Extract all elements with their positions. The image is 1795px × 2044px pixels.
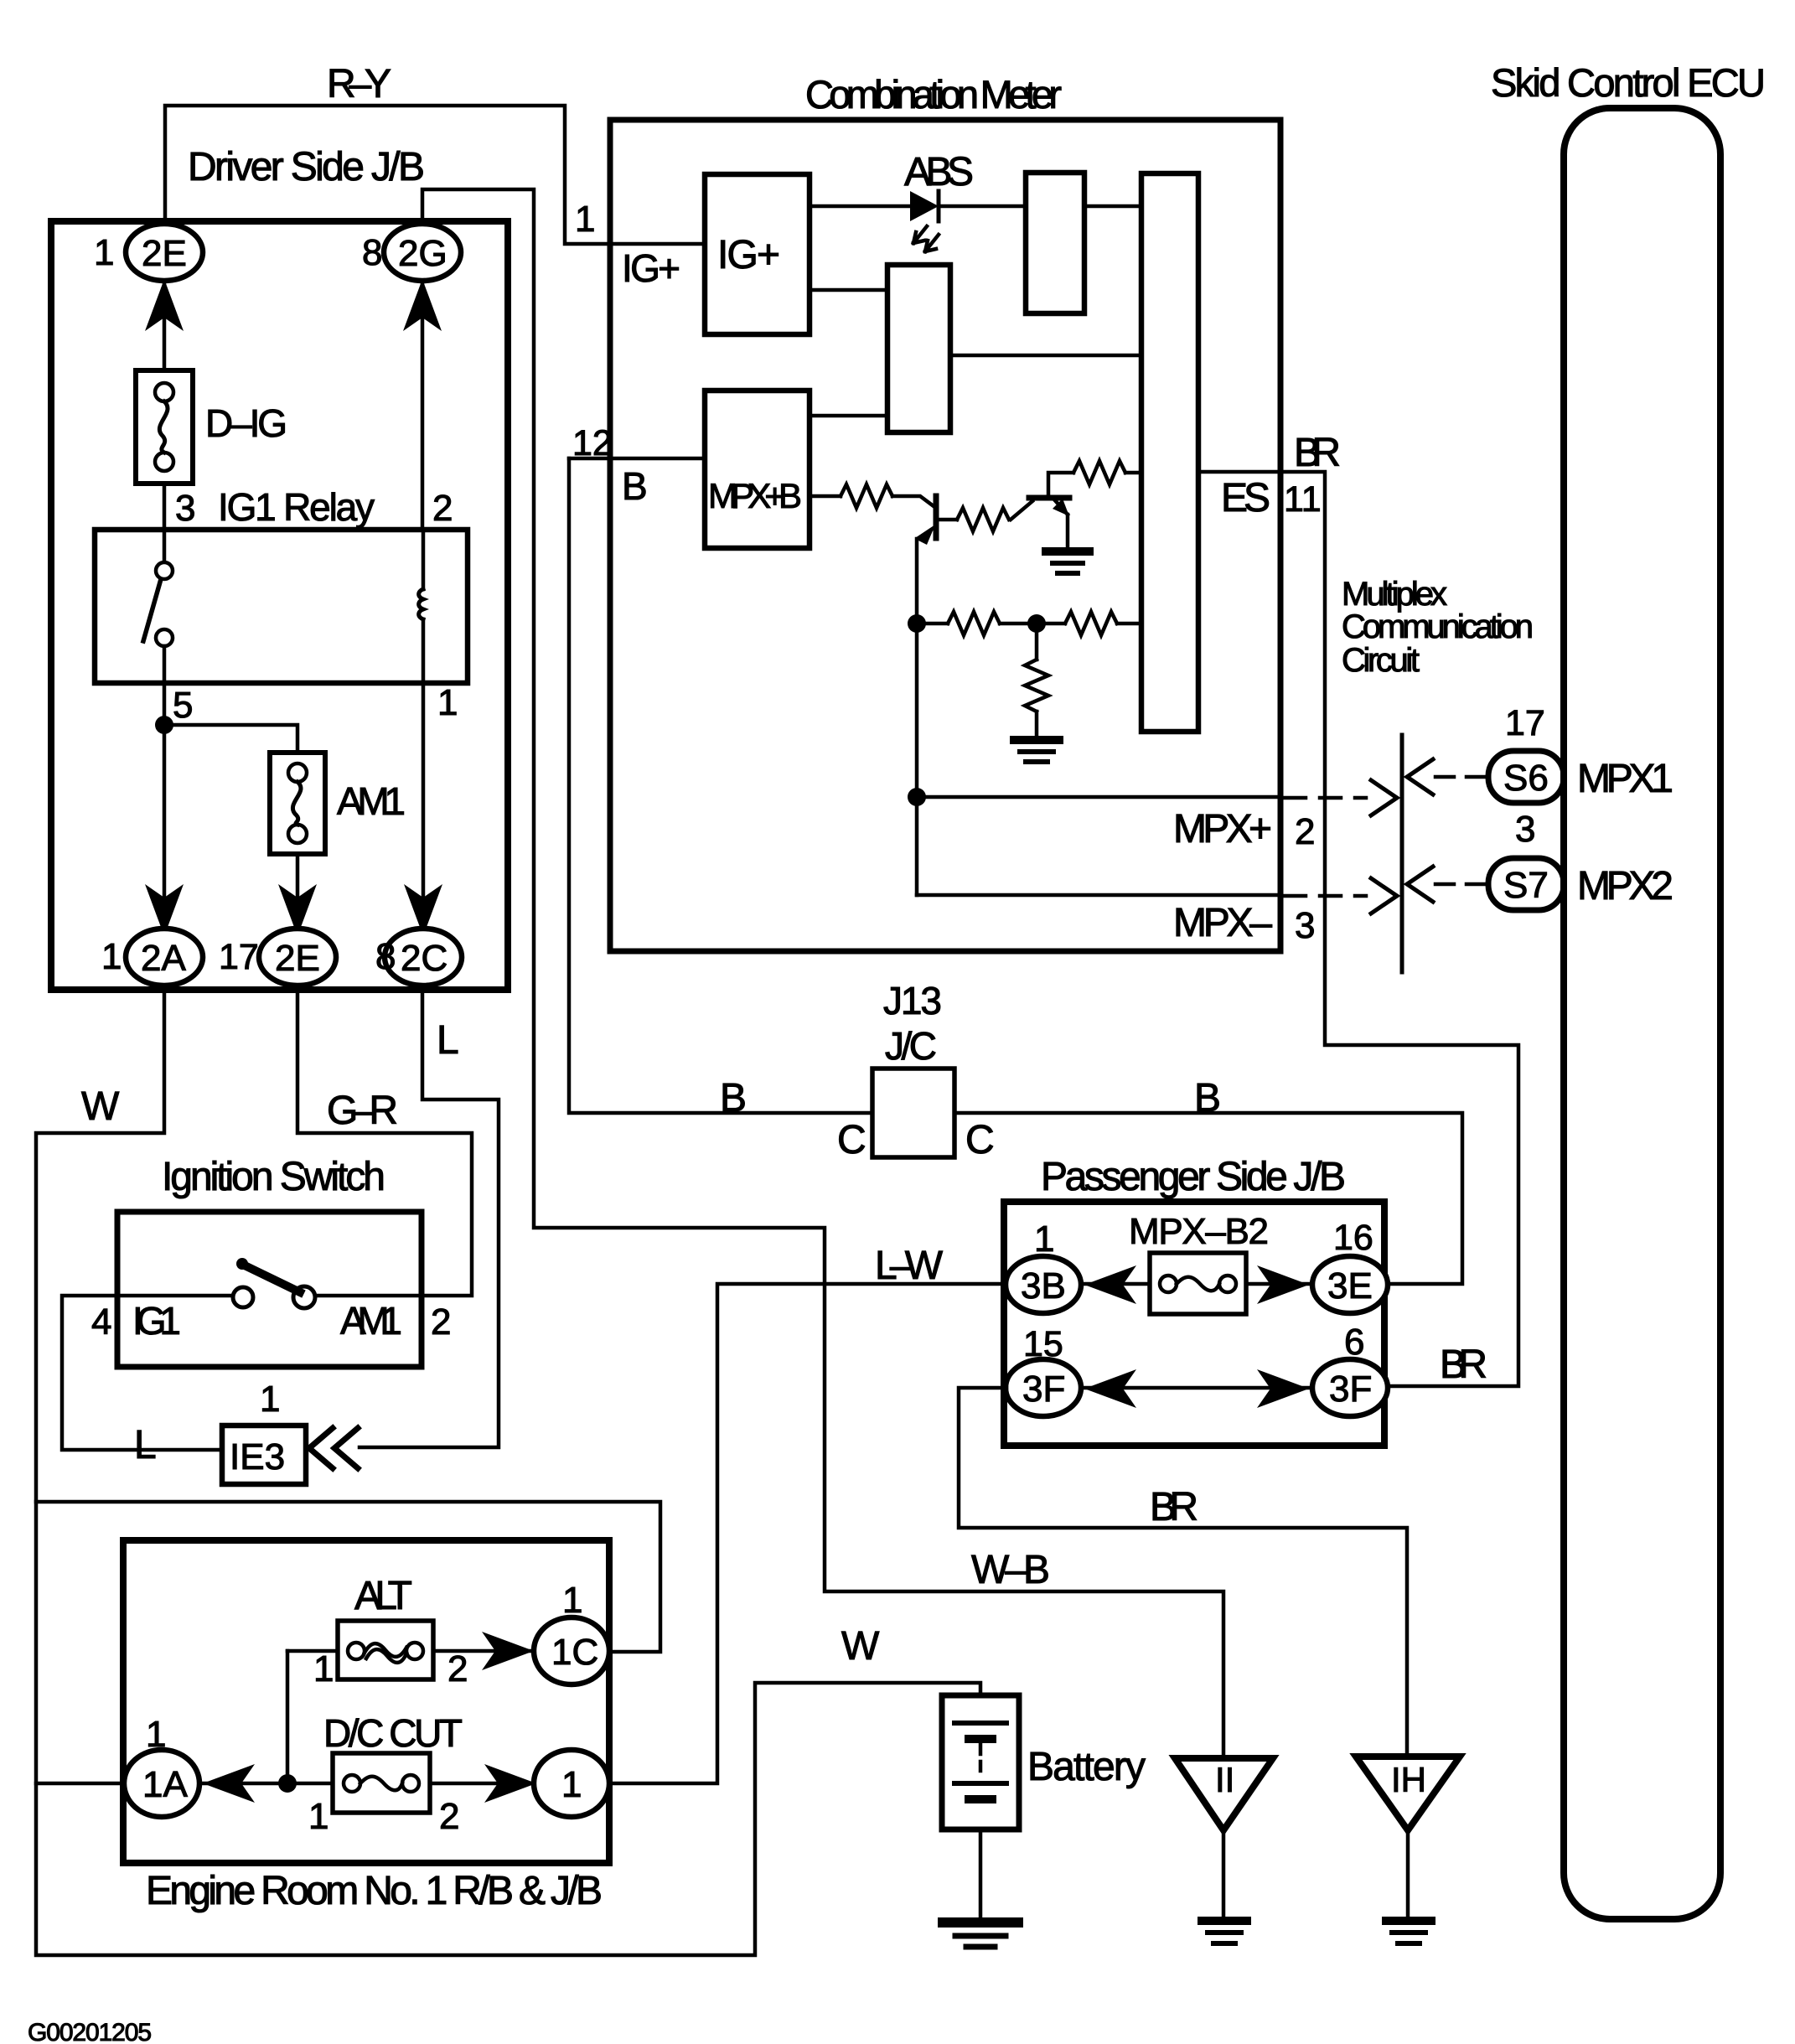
svg-text:ALT: ALT [354, 1574, 412, 1618]
svg-text:3: 3 [1295, 905, 1315, 946]
svg-text:3F: 3F [1022, 1369, 1065, 1410]
svg-text:W–B: W–B [971, 1548, 1050, 1592]
svg-text:G–R: G–R [327, 1089, 398, 1133]
wire IG+ to ABS diode [810, 204, 910, 209]
connector arrow right into 1 [484, 1764, 536, 1803]
meter block IG+ [705, 174, 810, 334]
wire IG+ to block3 [810, 288, 887, 292]
svg-text:L: L [134, 1423, 157, 1467]
wire branch to 1C via engine room [36, 1502, 660, 1652]
wire dot A to R4 [917, 622, 948, 626]
svg-text:BR: BR [1150, 1485, 1198, 1529]
meter block 3 [887, 265, 950, 432]
svg-text:3E: 3E [1327, 1265, 1373, 1307]
wire G-R from 2E bottom to AM1 terminal [297, 986, 472, 1296]
svg-text:2: 2 [431, 1301, 451, 1343]
svg-text:Battery: Battery [1027, 1745, 1146, 1789]
resistor R5 [1065, 612, 1117, 635]
connector oval 2A [126, 929, 203, 986]
svg-text:3B: 3B [1021, 1265, 1066, 1307]
svg-text:2: 2 [1295, 811, 1315, 852]
svg-text:1: 1 [561, 1764, 582, 1805]
svg-text:2C: 2C [401, 938, 447, 979]
svg-text:MPX2: MPX2 [1577, 864, 1673, 908]
svg-text:16: 16 [1333, 1218, 1373, 1258]
LED diode ABS [910, 191, 939, 221]
meter block MPX+B [705, 391, 810, 548]
fuse ALT [338, 1621, 433, 1679]
switch lever [243, 1265, 300, 1292]
svg-text:2E: 2E [275, 938, 320, 979]
transistor Q2 [1029, 495, 1069, 501]
svg-text:1: 1 [94, 232, 114, 273]
connector oval 2E top [126, 224, 203, 281]
svg-text:D–IG: D–IG [205, 401, 287, 445]
svg-text:1: 1 [437, 682, 458, 723]
dashed S6 arrow to bus [1435, 775, 1485, 779]
svg-text:1C: 1C [551, 1632, 598, 1673]
svg-text:ES: ES [1221, 476, 1270, 520]
multiplex bus line [1400, 735, 1404, 972]
wire R2 to Q2 base [1011, 501, 1032, 520]
connector oval 3F right [1312, 1359, 1388, 1416]
svg-text:IG+: IG+ [622, 246, 680, 290]
wire D-IG fuse to IG1 relay pin 3 [163, 484, 167, 530]
svg-text:IG+: IG+ [717, 233, 780, 277]
svg-text:1: 1 [101, 936, 122, 977]
fuse D-IG [136, 370, 193, 484]
svg-text:1: 1 [313, 1648, 334, 1690]
svg-text:1: 1 [562, 1580, 582, 1621]
wire II to ground [1222, 1830, 1226, 1919]
svg-text:Communication: Communication [1342, 608, 1534, 645]
box Combination Meter [610, 120, 1280, 951]
svg-text:Ignition Switch: Ignition Switch [162, 1155, 385, 1199]
wire dot A down to MPX lines [915, 624, 919, 895]
connector oval 3B [1006, 1256, 1081, 1313]
connector arrow right into 3E [1257, 1265, 1309, 1304]
svg-text:W: W [841, 1624, 880, 1669]
wire B pin 12 into MPX+B [569, 457, 705, 461]
svg-text:2E: 2E [142, 233, 187, 274]
svg-text:MPX–: MPX– [1173, 901, 1272, 945]
wire R-Y from 2E top to meter pin 1 [165, 106, 705, 244]
svg-text:3: 3 [1515, 809, 1535, 850]
resistor R2 [957, 508, 1009, 531]
junction dot B [1027, 614, 1046, 633]
wire AM1 fuse to 2E bottom [296, 854, 300, 932]
svg-text:BR: BR [1440, 1343, 1487, 1387]
svg-text:Engine Room No. 1 R/B & J/B: Engine Room No. 1 R/B & J/B [146, 1869, 603, 1913]
svg-text:L–W: L–W [875, 1244, 944, 1288]
connector arrow left into 3F left [1084, 1369, 1136, 1408]
dashed S7 arrow to bus [1435, 882, 1485, 887]
connector arrow down into 2A [145, 884, 184, 936]
svg-text:Combination Meter: Combination Meter [805, 72, 1062, 116]
svg-text:C: C [965, 1118, 995, 1162]
svg-text:2: 2 [447, 1648, 468, 1690]
dashed MPX- arrow to bus [1285, 894, 1366, 898]
wire ALT fuse to 1C [433, 1649, 534, 1653]
connector S6 [1488, 751, 1564, 803]
connector arrow right into 1C [482, 1632, 534, 1670]
wire 2E to D-IG fuse [163, 281, 167, 370]
wire W from 2A to battery with branches [36, 986, 980, 1955]
ground II [1202, 1917, 1247, 1925]
wire 3B to fuse [1081, 1282, 1150, 1286]
svg-text:1: 1 [1034, 1219, 1054, 1260]
wire diode to block2 [939, 204, 1026, 209]
wire IG1 terminal line [117, 1294, 234, 1298]
svg-text:Skid Control ECU: Skid Control ECU [1491, 60, 1766, 105]
meter block 2 [1026, 173, 1084, 313]
wire MPX+ [917, 795, 1281, 799]
connector oval 2E bottom [259, 929, 336, 986]
svg-text:J/C: J/C [885, 1024, 937, 1068]
svg-text:B: B [622, 464, 648, 508]
svg-text:IG1 Relay: IG1 Relay [218, 485, 375, 529]
svg-text:2: 2 [432, 488, 453, 529]
ground IH [1386, 1917, 1431, 1925]
svg-text:12: 12 [572, 423, 613, 463]
wire branch to AM1 fuse [164, 725, 297, 753]
svg-text:S6: S6 [1503, 758, 1549, 799]
wire B from J13 to 3E [954, 1113, 1462, 1284]
wire D/C CUT to 1 oval [430, 1782, 534, 1786]
wire battery to ground [979, 1829, 983, 1920]
connector arrow up into 2G [403, 279, 442, 331]
wire IG1 terminal 4 to IE3 [62, 1296, 222, 1450]
svg-text:4: 4 [91, 1301, 111, 1343]
svg-text:1A: 1A [142, 1764, 188, 1805]
svg-text:IH: IH [1391, 1760, 1426, 1799]
svg-text:C: C [837, 1118, 866, 1162]
svg-text:Driver Side J/B: Driver Side J/B [188, 145, 425, 189]
svg-text:R–Y: R–Y [327, 62, 391, 106]
connector oval 3E [1312, 1256, 1388, 1313]
wire 2G to relay coil pin 2 [421, 281, 425, 530]
connector arrow left into 3B [1084, 1265, 1136, 1304]
svg-text:2: 2 [439, 1796, 459, 1837]
svg-text:AM1: AM1 [340, 1299, 402, 1343]
relay IG1 box [95, 530, 468, 683]
connector arrow right into 3F right [1257, 1369, 1309, 1408]
wire Q1 base to R2 [936, 518, 957, 522]
wire IH to ground [1406, 1830, 1410, 1919]
connector oval 1C [534, 1617, 609, 1684]
triangle IH [1356, 1757, 1460, 1830]
box ignition switch [117, 1212, 422, 1367]
junction J13 J/C [872, 1069, 954, 1157]
wire 1A to D/C CUT [199, 1782, 333, 1786]
wire R4 to dot B [1000, 622, 1037, 626]
svg-text:BR: BR [1294, 431, 1341, 475]
fuse AM1 [270, 753, 325, 854]
wire ES BR to 3F right [1202, 472, 1518, 1386]
connector IE3 [222, 1426, 306, 1484]
svg-text:11: 11 [1284, 479, 1322, 520]
wire 3F left to 3F right [1081, 1386, 1312, 1390]
wire R5 to gauge strip [1117, 622, 1141, 626]
wire R3 to gauge strip [1125, 471, 1141, 475]
junction dot D [278, 1774, 297, 1793]
transistor Q1 [934, 496, 939, 538]
fuse MPX-B2 [1150, 1253, 1246, 1314]
wire B from meter pin 12 to J13 [569, 458, 872, 1113]
junction dot C [908, 788, 926, 806]
ground G2 [1014, 736, 1059, 744]
svg-text:6: 6 [1344, 1322, 1364, 1363]
junction dot A [908, 614, 926, 633]
box Engine Room No.1 R/B and J/B [123, 1540, 609, 1863]
wire MPX- [917, 893, 1281, 898]
wire L-W from engine room 1 to 3B [611, 1284, 1006, 1783]
wire ALT branch vertical [286, 1651, 290, 1783]
svg-text:Circuit: Circuit [1342, 642, 1420, 679]
svg-text:17: 17 [1505, 703, 1545, 743]
triangle II [1175, 1758, 1273, 1830]
wire into ALT fuse [287, 1649, 338, 1653]
svg-text:L: L [437, 1018, 459, 1063]
wire R1 to Q1 base [892, 496, 934, 506]
wire MPX+B to resistor R1 [810, 494, 841, 499]
resistor R1 [841, 484, 892, 508]
svg-text:B: B [1194, 1076, 1221, 1120]
svg-text:J13: J13 [883, 979, 942, 1022]
wire BR from 3F left to IH triangle [959, 1388, 1407, 1757]
svg-text:1: 1 [575, 199, 595, 240]
wire block3 to gauge strip [950, 354, 1141, 358]
connector oval 2C [385, 929, 462, 986]
box Skid Control ECU [1564, 108, 1720, 1919]
svg-text:8: 8 [362, 232, 382, 273]
connector S7 [1488, 858, 1564, 910]
svg-text:Multiplex: Multiplex [1342, 576, 1447, 613]
wire relay pin 1 to 2C [422, 683, 426, 932]
ground battery [943, 1917, 1018, 1928]
svg-text:17: 17 [219, 937, 259, 977]
wire R6 to ground G2 [1035, 712, 1039, 738]
svg-text:8: 8 [375, 936, 396, 977]
fuse D/C CUT [333, 1753, 430, 1813]
svg-text:II: II [1215, 1760, 1234, 1799]
ground G1 under Q2 [1046, 547, 1089, 556]
svg-text:5: 5 [173, 685, 193, 726]
svg-text:MPX–B2: MPX–B2 [1129, 1211, 1269, 1252]
svg-text:MPX+B: MPX+B [708, 476, 802, 515]
svg-text:2G: 2G [398, 233, 447, 274]
svg-text:D/C CUT: D/C CUT [323, 1711, 463, 1755]
dashed MPX+ arrow to bus [1285, 796, 1366, 800]
svg-text:MPX1: MPX1 [1577, 757, 1673, 801]
meter gauge strip [1141, 173, 1198, 732]
wire Q1 emitter down [915, 539, 919, 624]
connector arrow down into 2C [404, 884, 442, 936]
svg-text:G00201205: G00201205 [28, 2019, 152, 2044]
svg-text:3F: 3F [1329, 1369, 1372, 1410]
resistor R3 [1073, 461, 1125, 484]
connector oval 2G top [384, 224, 461, 281]
wire MPX+B to block3 [810, 414, 887, 418]
double chevron into IE3 [309, 1428, 333, 1468]
wire fuse to 3E [1246, 1282, 1312, 1286]
svg-text:2A: 2A [141, 938, 186, 979]
svg-text:3: 3 [175, 488, 195, 529]
relay coil [422, 530, 426, 589]
svg-text:IE3: IE3 [230, 1436, 285, 1477]
junction dot node 5 [155, 716, 173, 734]
svg-text:B: B [720, 1076, 747, 1120]
svg-text:Passenger Side J/B: Passenger Side J/B [1041, 1155, 1346, 1199]
wire 2G ground route to W-B and II triangle [422, 189, 1223, 1758]
connector oval 1A [124, 1750, 199, 1817]
battery [942, 1695, 1019, 1829]
switch contact circles [233, 1287, 253, 1307]
wire relay pin 5 down to 2A [163, 683, 167, 932]
connector arrow left into 1A [203, 1764, 255, 1803]
svg-text:S7: S7 [1503, 865, 1549, 906]
connector oval 3F left [1006, 1359, 1081, 1416]
connector arrow up into 2E [145, 279, 184, 331]
resistor R6 vertical [1035, 624, 1039, 660]
wire L from 2C to IE3 [360, 986, 499, 1447]
svg-text:W: W [81, 1084, 120, 1129]
wire branch to 1A [36, 1782, 127, 1786]
box Driver Side J/B [51, 221, 508, 990]
connector oval 1 [534, 1750, 609, 1817]
wire block2 to gauge strip [1084, 204, 1141, 209]
svg-text:IG1: IG1 [132, 1299, 181, 1343]
svg-text:AM1: AM1 [337, 779, 406, 823]
svg-text:1: 1 [308, 1796, 328, 1837]
svg-text:1: 1 [260, 1379, 280, 1420]
connector arrow down into 2E bottom [278, 884, 317, 936]
resistor R4 [948, 612, 1000, 635]
relay switch contact [163, 530, 167, 563]
svg-text:MPX+: MPX+ [1173, 807, 1272, 851]
svg-text:ABS: ABS [904, 150, 974, 194]
box Passenger Side J/B [1004, 1202, 1384, 1446]
